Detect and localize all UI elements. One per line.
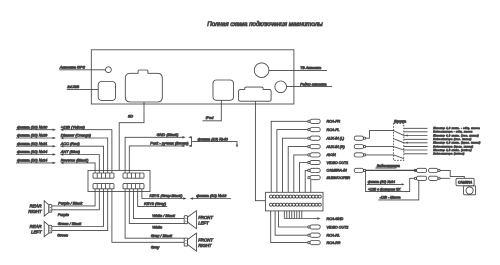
wire Green / Black [52, 189, 104, 227]
svg-text:RCA-FR: RCA-FR [327, 120, 341, 124]
svg-text:фишка (10) №24: фишка (10) №24 [368, 180, 395, 184]
svg-text:LEFT: LEFT [198, 221, 209, 226]
svg-text:Антенна GPS: Антенна GPS [59, 66, 86, 70]
wire video to camera [366, 169, 417, 171]
label 2xUSB [67, 88, 98, 90]
GPS antenna jack [106, 67, 112, 73]
wire RCA-RL [275, 211, 308, 235]
button connector (dashed) [394, 123, 404, 160]
svg-text:White: White [152, 224, 163, 229]
svg-text:Видеокамера - общ. масса: Видеокамера - общ. масса [433, 130, 473, 134]
svg-text:REAR: REAR [30, 224, 42, 229]
pin strip bottom-left [93, 184, 114, 189]
wire Видеокамера (видео) [404, 153, 428, 155]
wire AUX-IN (L) [283, 138, 308, 192]
SD card slot [125, 70, 162, 102]
wire AUX-IN (L) to button [366, 131, 394, 139]
svg-text:RCA-RR: RCA-RR [327, 241, 341, 245]
head unit U1 (rear panel) [91, 50, 294, 104]
svg-text:SUBWOOFER: SUBWOOFER [327, 176, 351, 180]
svg-text:ACC (Red): ACC (Red) [60, 141, 81, 146]
wire power after coupling [440, 177, 450, 179]
svg-text:RIGHT: RIGHT [198, 243, 212, 248]
svg-text:CAMERA-IN: CAMERA-IN [327, 169, 348, 173]
speaker FRONT LEFT [184, 216, 187, 224]
svg-text:Кнопка: Кнопка [394, 120, 406, 124]
RCA coupling pair power [414, 177, 416, 179]
pin strip top-right [123, 173, 144, 178]
svg-text:Радио антенна: Радио антенна [300, 82, 326, 86]
wire: main harness down to RCA box [255, 101, 265, 201]
wire RCA-GND bus [284, 211, 302, 219]
RCA plug VIDEO OUT1 [308, 161, 310, 163]
main harness connector on unit [239, 87, 272, 101]
radio antenna jack [275, 81, 287, 93]
wire Штекер 4,0 конт. - общ. масса [404, 127, 428, 129]
svg-text:фишка (10) №22: фишка (10) №22 [196, 193, 227, 198]
svg-text:Purple: Purple [58, 212, 70, 217]
camera CAMERA [456, 178, 474, 186]
svg-text:2xUSB: 2xUSB [66, 85, 79, 89]
wire CAMERA-IN [305, 170, 308, 192]
svg-text:Green / Black: Green / Black [58, 221, 83, 226]
wire White / Black [134, 189, 185, 219]
svg-text:Green: Green [57, 233, 68, 238]
speaker REAR LEFT [44, 221, 49, 236]
wire video after coupling [440, 170, 464, 178]
wire RCA-FR [271, 121, 308, 192]
mating RCA plug AUX-IN (L) [354, 136, 363, 140]
button switch contacts [394, 131, 404, 159]
svg-text:GND (Black): GND (Black) [157, 132, 180, 137]
svg-text:CAMERA: CAMERA [458, 181, 473, 185]
svg-text:фишка (10) №29: фишка (10) №29 [17, 133, 48, 138]
svg-text:Штекер 4,0 конт. (видео): Штекер 4,0 конт. (видео) [433, 148, 472, 152]
svg-text:FRONT: FRONT [198, 238, 213, 243]
svg-text:iPod: iPod [206, 116, 214, 120]
svg-text:AV-IN: AV-IN [326, 153, 337, 157]
svg-text:Полная схема подключения магни: Полная схема подключения магнитолы [207, 21, 323, 28]
svg-text:VIDEO OUT1: VIDEO OUT1 [327, 161, 349, 165]
svg-text:фишка (10) №40: фишка (10) №40 [198, 136, 229, 141]
svg-text:FRONT: FRONT [198, 215, 213, 220]
wire Видеокамера - общ. масса [404, 131, 428, 133]
mating RCA plug AV-IN [354, 153, 363, 157]
svg-text:Видеокамера (видео): Видеокамера (видео) [433, 152, 464, 156]
RCA plug AUX-IN (L) [308, 137, 310, 139]
wire KEY1 (Grey-Black) to фишка (10) №22 [142, 189, 183, 199]
svg-text:Grey / Black: Grey / Black [151, 233, 173, 238]
svg-text:KEY1 (Grey-Black): KEY1 (Grey-Black) [150, 193, 184, 198]
svg-text:Видеокамера (лев. канал): Видеокамера (лев. канал) [433, 137, 472, 141]
svg-text:KEY2 (Grey): KEY2 (Grey) [144, 201, 167, 206]
iPod port [213, 80, 234, 100]
svg-text:RIGHT: RIGHT [28, 209, 42, 214]
svg-text:SD: SD [128, 115, 134, 119]
mating RCA plug CAMERA-IN [354, 168, 363, 172]
RCA block pin row [270, 195, 322, 198]
wire Grey / Black [125, 189, 184, 238]
wire White [129, 189, 184, 224]
wire Purple / Black [52, 189, 95, 206]
wire camera power riser [366, 170, 415, 191]
pin strip top-left [93, 173, 114, 178]
wire Видеокамера (прав. канал) [404, 146, 428, 148]
svg-text:VIDEO OUT2: VIDEO OUT2 [327, 225, 349, 229]
wire RCA-RR [271, 211, 308, 243]
wire VIDEO OUT1 [300, 163, 308, 193]
svg-text:Reverse (Black): Reverse (Black) [61, 158, 89, 163]
wire Purple [52, 189, 100, 210]
svg-text:Purple / Black: Purple / Black [58, 200, 83, 205]
svg-text:Видеокамера: Видеокамера [377, 164, 400, 168]
RCA output block X2 [265, 192, 323, 211]
svg-text:Dimmer (Orange): Dimmer (Orange) [61, 133, 92, 138]
svg-text:REAR: REAR [30, 203, 42, 208]
svg-text:+12В (Yellow): +12В (Yellow) [61, 124, 86, 129]
RCA plug AV-IN [308, 154, 310, 156]
wire VIDEO OUT2 [279, 211, 308, 227]
RCA plug VIDEO OUT2 [308, 226, 310, 228]
wire RCA-FL [277, 130, 308, 193]
svg-text:Park - ручник (Brown): Park - ручник (Brown) [150, 141, 189, 146]
speaker REAR RIGHT [44, 201, 49, 216]
svg-text:фишка (10) №24: фишка (10) №24 [17, 158, 48, 163]
wire Штекер 4,0 конт. (прав. канал) [404, 142, 428, 144]
svg-text:фишка (10) №34: фишка (10) №34 [17, 149, 48, 154]
svg-text:AUX-IN (R): AUX-IN (R) [326, 145, 345, 149]
wire Видеокамера (лев. канал) [404, 138, 428, 140]
svg-text:фишка (10) №30: фишка (10) №30 [17, 124, 48, 129]
svg-text:фишка (10) №21: фишка (10) №21 [17, 141, 47, 146]
wire AV-IN [294, 155, 308, 192]
svg-text:Штекер 4,0 конт. - общ. масса: Штекер 4,0 конт. - общ. масса [433, 126, 480, 130]
RCA plug RCA-RR [308, 242, 310, 244]
label Антенна GPS [59, 69, 105, 71]
TV antenna jack [254, 63, 269, 78]
svg-text:-12В - Масса: -12В - Масса [380, 196, 401, 200]
RCA plug CAMERA-IN [308, 169, 310, 171]
svg-text:RCA-FL: RCA-FL [327, 128, 340, 132]
svg-text:LEFT: LEFT [31, 230, 42, 235]
RCA block pin row [270, 203, 322, 206]
label ТВ Антенна [269, 69, 327, 71]
wire AV-IN to button [366, 154, 394, 156]
RCA plug RCA-FR [308, 120, 310, 122]
wire Grey [112, 189, 184, 243]
speaker FRONT RIGHT [184, 238, 187, 246]
node фишка (10) №40 [188, 136, 191, 139]
svg-text:+12В с фонарем ЗХ: +12В с фонарем ЗХ [368, 187, 401, 191]
label Радио антенна [287, 86, 333, 88]
ISO connector block X1 [88, 170, 150, 191]
USB port 2xUSB [98, 82, 115, 101]
svg-text:AUX-IN (L): AUX-IN (L) [326, 137, 345, 141]
wire AUX-IN (R) [288, 147, 308, 193]
RCA plug AUX-IN (R) [308, 146, 310, 148]
wire SUBWOOFER [310, 180, 312, 193]
wire Штекер 4,0 конт. (видео) [404, 149, 428, 151]
svg-text:White / Black: White / Black [152, 213, 176, 218]
RCA plug SUBWOOFER [308, 177, 310, 179]
RCA plug RCA-FL [308, 129, 310, 131]
svg-text:Штекер 4,0 конт. (лев. канал): Штекер 4,0 конт. (лев. канал) [433, 133, 479, 137]
mating RCA plug AUX-IN (R) [354, 145, 363, 149]
wire Green [52, 189, 108, 231]
svg-text:ТВ Антенна: ТВ Антенна [300, 66, 321, 70]
wire AUX-IN (R) to button [366, 146, 394, 148]
svg-text:Grey: Grey [151, 245, 160, 250]
RCA plug RCA-RL [308, 234, 310, 236]
svg-text:ANT (Blue): ANT (Blue) [60, 149, 81, 154]
svg-text:Штекер 4,0 конт. (прав. канал): Штекер 4,0 конт. (прав. канал) [433, 141, 481, 145]
svg-text:RCA-RL: RCA-RL [327, 234, 340, 238]
RCA coupling pair video [414, 169, 416, 171]
svg-text:RCA-GND: RCA-GND [327, 217, 344, 221]
wire Штекер 4,0 конт. (лев. канал) [404, 135, 428, 137]
wire KEY2 (Grey) [138, 189, 168, 207]
pin strip bottom-right [123, 184, 144, 189]
svg-text:Видеокамера (прав. канал): Видеокамера (прав. канал) [433, 144, 473, 148]
